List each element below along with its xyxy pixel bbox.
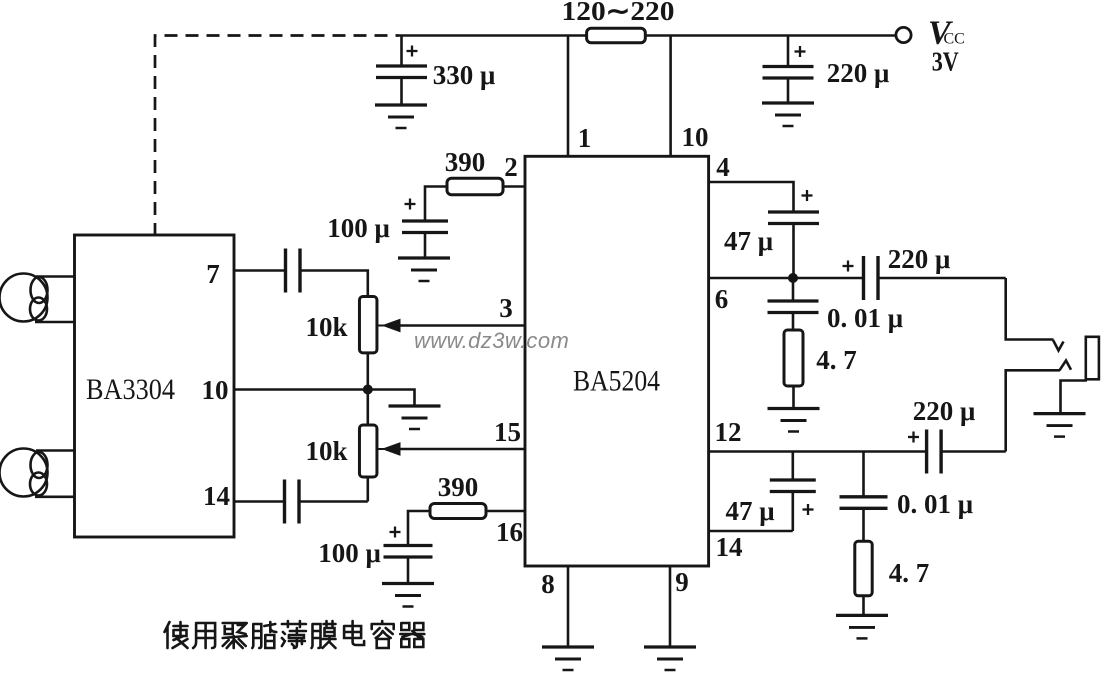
capacitor 220u out upper plus — [843, 265, 854, 267]
wire jack tip contact — [1006, 278, 1054, 340]
wire pin2 to resistor — [503, 185, 525, 188]
wire pin15 to wiper — [400, 448, 526, 451]
capacitor 330u plates — [376, 64, 427, 67]
wire pin7 to cap — [233, 269, 285, 272]
ground 100u upper — [398, 256, 450, 259]
svg-text:14: 14 — [716, 532, 743, 562]
svg-text:CC: CC — [944, 31, 965, 48]
wire 220u to jack — [878, 277, 1006, 280]
earphone lower — [0, 449, 48, 497]
capacitor 100u lower lead — [407, 557, 410, 584]
resistor 120~220 — [587, 28, 646, 43]
capacitor 0.01u lower lead — [862, 452, 865, 497]
wire pin1 to rail — [567, 36, 570, 158]
svg-text:4. 7: 4. 7 — [889, 558, 930, 588]
wire 220u lower to jack — [941, 450, 1006, 453]
svg-text:100 μ: 100 μ — [327, 213, 390, 243]
capacitor 0.01u upper lead — [792, 278, 795, 301]
caption char ju4 — [223, 623, 247, 648]
caption char qi4 — [400, 623, 424, 647]
capacitor 47u lower lead top — [791, 452, 794, 481]
wire resistor to cap node lower — [408, 511, 430, 546]
svg-text:100 μ: 100 μ — [318, 538, 381, 568]
wire earphone upper bottom — [35, 321, 76, 324]
capacitor coupling pin14 — [283, 480, 286, 524]
capacitor 47u lower lead bottom — [791, 492, 794, 532]
svg-text:8: 8 — [541, 569, 555, 599]
svg-text:10k: 10k — [305, 312, 347, 342]
capacitor 47u upper plates — [768, 210, 819, 213]
svg-text:47 μ: 47 μ — [724, 226, 773, 256]
capacitor 100u upper lead — [424, 233, 427, 259]
wire cap to pot lower bottom — [299, 500, 368, 503]
headphone jack body — [1086, 337, 1099, 380]
svg-text:120∼220: 120∼220 — [562, 0, 675, 26]
wire jack ring contact — [1006, 370, 1060, 451]
wire pin3 to wiper — [400, 324, 526, 327]
svg-text:7: 7 — [206, 259, 220, 289]
svg-text:0. 01 μ: 0. 01 μ — [897, 489, 973, 519]
wire earphone lower bottom — [35, 495, 76, 498]
svg-text:10: 10 — [682, 122, 709, 152]
ground mid pots — [389, 404, 441, 407]
ground jack — [1034, 412, 1086, 415]
resistor 4.7 upper — [784, 330, 803, 386]
capacitor 220u out upper — [862, 256, 865, 300]
svg-text:9: 9 — [675, 567, 689, 597]
ground for 220u top — [762, 101, 814, 104]
wire pin10 BA3304 to junction — [233, 388, 367, 391]
svg-text:12: 12 — [715, 417, 742, 447]
wire junction to ground stub — [368, 390, 415, 407]
ground pin8 — [542, 645, 594, 648]
caption char rong2 — [372, 621, 394, 648]
ground 4.7 upper — [768, 407, 820, 410]
svg-text:4: 4 — [716, 152, 730, 182]
svg-text:www.dz3w.com: www.dz3w.com — [414, 328, 569, 353]
capacitor 330u lead — [400, 36, 403, 67]
resistor 390 lower — [430, 504, 486, 519]
caption char mo2 — [312, 621, 336, 648]
capacitor 100u upper plates — [402, 219, 448, 222]
caption char dian4 — [344, 621, 364, 645]
wire pin12 — [709, 450, 927, 453]
wire 4.7 lower to ground — [862, 596, 865, 616]
caption char shi3 — [165, 622, 188, 648]
capacitor 330u plus — [407, 50, 418, 52]
wire pin14 right — [709, 530, 793, 533]
svg-text:10: 10 — [202, 375, 229, 405]
wire junction to pot lower top — [366, 390, 369, 426]
capacitor 0.01u upper plates — [768, 299, 819, 302]
svg-text:1: 1 — [578, 123, 592, 153]
wire pin14 BA3304 to cap — [233, 500, 284, 503]
wire cap to pot top — [300, 271, 368, 297]
svg-text:3V: 3V — [932, 47, 959, 77]
capacitor coupling pin7 — [284, 249, 287, 293]
wire pot lower bottom — [366, 477, 369, 502]
potentiometer 10k upper — [359, 297, 377, 353]
capacitor 47u lower plates — [770, 478, 816, 481]
earphone upper — [0, 274, 48, 322]
capacitor 220u out lower — [925, 430, 928, 474]
ground 100u lower — [382, 582, 434, 585]
wire pin16 to resistor — [486, 510, 525, 513]
capacitor 220u top plus — [795, 50, 806, 52]
svg-text:0. 01 μ: 0. 01 μ — [827, 303, 903, 333]
wire top supply rail — [399, 34, 896, 37]
wire dashed feedback from BA3304 top to supply rail — [155, 36, 399, 237]
svg-text:14: 14 — [203, 481, 230, 511]
svg-text:220 μ: 220 μ — [827, 58, 890, 88]
IC BA3304 box — [75, 235, 235, 537]
wire resistor to cap node — [425, 187, 447, 222]
junction dot mid pots — [363, 385, 373, 395]
capacitor 220u top lower lead — [787, 78, 790, 103]
wire to resistor 4.7 upper — [792, 313, 795, 331]
capacitor 220u top lead — [787, 36, 790, 67]
wire pin9 to ground — [669, 566, 672, 647]
ground for 330u — [375, 103, 427, 106]
wire earphone upper top — [36, 275, 76, 278]
svg-text:47 μ: 47 μ — [725, 496, 774, 526]
resistor 4.7 lower — [855, 541, 872, 596]
svg-text:15: 15 — [494, 417, 521, 447]
jack ring chevron — [1060, 361, 1072, 371]
pot upper wiper arrow — [377, 320, 400, 331]
capacitor 100u lower plates — [384, 544, 433, 547]
capacitor 47u upper plus — [802, 194, 813, 196]
ground pin9 — [644, 645, 696, 648]
svg-text:10k: 10k — [305, 436, 347, 466]
svg-text:6: 6 — [715, 284, 729, 314]
wire pin10 to rail — [669, 36, 672, 158]
IC BA5204 box — [525, 156, 709, 566]
wire pot upper bottom to junction — [366, 353, 369, 390]
wire jack sleeve to ground — [1061, 381, 1088, 414]
capacitor 100u upper plus — [405, 203, 416, 205]
capacitor 220u out lower plus — [908, 436, 919, 438]
resistor 390 upper — [447, 178, 503, 195]
capacitor 100u lower plus — [390, 531, 401, 533]
ground 4.7 lower — [836, 614, 888, 617]
svg-text:4. 7: 4. 7 — [816, 345, 857, 375]
svg-text:2: 2 — [504, 152, 518, 182]
svg-text:390: 390 — [438, 472, 479, 502]
svg-text:220 μ: 220 μ — [888, 244, 951, 274]
junction dot pin6 — [788, 273, 798, 283]
wire 4.7 upper to ground — [792, 386, 795, 409]
capacitor 47u upper lead — [792, 224, 795, 279]
capacitor 330u lower lead — [400, 78, 403, 106]
wire pin8 to ground — [567, 566, 570, 647]
wire to resistor 4.7 lower — [862, 508, 865, 541]
capacitor 0.01u lower plates — [840, 495, 888, 498]
svg-text:16: 16 — [496, 517, 523, 547]
svg-text:BA3304: BA3304 — [86, 373, 175, 406]
svg-text:390: 390 — [445, 147, 486, 177]
caption char yong4 — [193, 623, 215, 648]
svg-text:330 μ: 330 μ — [433, 60, 496, 90]
capacitor 47u lower plus — [803, 508, 814, 510]
svg-text:3: 3 — [499, 293, 513, 323]
pot lower wiper arrow — [377, 444, 400, 455]
Vcc terminal — [896, 27, 911, 42]
wire earphone lower top — [36, 449, 76, 452]
wire pin4 — [709, 182, 794, 212]
caption char bo2 — [282, 621, 306, 648]
svg-text:BA5204: BA5204 — [573, 365, 660, 398]
caption char zhi1 — [252, 622, 276, 648]
capacitor 220u top plates — [763, 65, 814, 68]
svg-text:220 μ: 220 μ — [913, 396, 976, 426]
jack tip chevron — [1053, 340, 1064, 351]
wire pin6 — [709, 277, 864, 280]
potentiometer 10k lower — [359, 425, 377, 477]
